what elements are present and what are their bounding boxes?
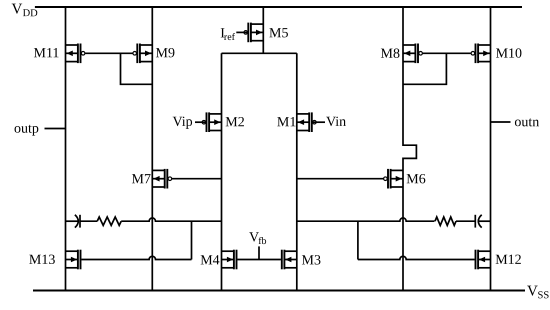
svg-text:M2: M2 <box>225 115 244 130</box>
wire: M6 gate line to first-stage node <box>297 178 384 180</box>
wire: M11-M9 gate line <box>85 52 133 54</box>
capacitor right (flat plate) <box>474 215 476 228</box>
svg-text:M12: M12 <box>495 253 521 268</box>
transistor M1 (PMOS input, Vin) <box>297 112 316 132</box>
label Vfb <box>249 230 267 247</box>
VSS label <box>527 284 549 302</box>
svg-text:M1: M1 <box>277 115 296 130</box>
wire: right output column (outn net, M10 drain to M12 drain) <box>490 7 492 291</box>
wire: M8/M6 column with jog (rail to VSS) <box>403 7 416 291</box>
transistor M6 <box>384 169 403 189</box>
wire: vertical from RC line to M12 gate line <box>357 221 359 259</box>
VDD rail <box>35 6 522 8</box>
wire: M9/M7 column (rail to VSS) <box>151 7 153 291</box>
svg-text:M4: M4 <box>200 253 219 268</box>
svg-text:M10: M10 <box>496 47 522 62</box>
svg-text:M6: M6 <box>406 172 425 187</box>
transistor M12 (NMOS) <box>476 250 491 270</box>
wire: M2-drain / M4-drain column <box>221 53 223 290</box>
transistor M8 (PMOS, diode-connected) <box>403 44 422 64</box>
svg-text:M13: M13 <box>29 253 55 268</box>
node outn lead <box>491 121 511 123</box>
wire: Iref gate lead <box>236 31 247 33</box>
capacitor left (curved plate) <box>75 215 78 228</box>
svg-text:M11: M11 <box>33 46 59 61</box>
wire: M8-M10 gate line <box>423 52 471 54</box>
transistor M11 (PMOS) <box>66 44 85 64</box>
wire: M9 gate-drain diode connection <box>121 53 153 84</box>
wire: RC line left with hop over M7 column <box>121 218 221 221</box>
VDD label <box>11 2 38 20</box>
VSS rail <box>33 289 525 291</box>
transistor M13 (NMOS) <box>66 250 81 270</box>
wire: Vin gate lead <box>313 121 325 123</box>
svg-text:M9: M9 <box>155 46 174 61</box>
capacitor left (flat plate) <box>79 215 81 228</box>
node outp lead <box>45 128 66 130</box>
wire: capacitor to outn column <box>478 220 490 222</box>
wire: vertical from RC line to M13 gate line <box>191 221 193 259</box>
wire: capacitor to resistor left <box>80 220 97 222</box>
wire: M7 gate line to first-stage node <box>172 178 222 180</box>
wire: M13 gate line with hop <box>81 256 191 259</box>
resistor right <box>435 217 456 225</box>
transistor M4 (NMOS) <box>222 250 237 270</box>
resistor left <box>97 217 121 225</box>
svg-text:ref: ref <box>224 32 236 43</box>
wire: M1-drain / M3-drain column <box>296 53 298 290</box>
wire: RC line right with hop over M6 column <box>297 218 435 221</box>
wire: outp column to capacitor <box>66 220 79 222</box>
wire: M12 gate line with hop <box>358 256 475 259</box>
svg-text:outp: outp <box>14 122 39 137</box>
transistor M7 <box>152 169 171 189</box>
svg-text:DD: DD <box>23 8 39 19</box>
svg-text:fb: fb <box>258 236 266 247</box>
svg-text:M3: M3 <box>301 253 320 268</box>
svg-text:M8: M8 <box>380 47 399 62</box>
svg-text:M5: M5 <box>269 26 288 41</box>
svg-text:Vip: Vip <box>172 115 192 130</box>
wire: resistor to capacitor right <box>456 220 475 222</box>
wire: left output column (outp net, M11 drain to M13 drain) <box>65 7 67 291</box>
svg-text:V: V <box>527 284 538 300</box>
svg-text:outn: outn <box>514 115 539 130</box>
svg-text:M7: M7 <box>131 172 150 187</box>
wire: M5 column (VDD to tail) <box>262 7 264 53</box>
transistor M3 (NMOS) <box>282 250 297 270</box>
wire: M8 gate-drain diode connection <box>403 53 446 84</box>
wire: M4-M3 gate line <box>237 259 281 261</box>
svg-text:V: V <box>11 2 22 18</box>
svg-text:Vin: Vin <box>326 115 346 130</box>
transistor M2 (PMOS input, Vip) <box>202 112 221 132</box>
transistor M5 (PMOS tail current source) <box>244 23 263 43</box>
label Iref <box>220 26 235 43</box>
transistor M10 (PMOS) <box>471 44 490 64</box>
wire: tail line (M5 drain to M2/M1 sources) <box>222 52 297 54</box>
wire: Vip gate lead <box>195 121 206 123</box>
svg-text:SS: SS <box>537 290 549 301</box>
transistor M9 (PMOS, diode-connected) <box>133 44 152 64</box>
wire: Vfb stub <box>258 246 260 259</box>
capacitor right (curved plate) <box>478 215 481 228</box>
